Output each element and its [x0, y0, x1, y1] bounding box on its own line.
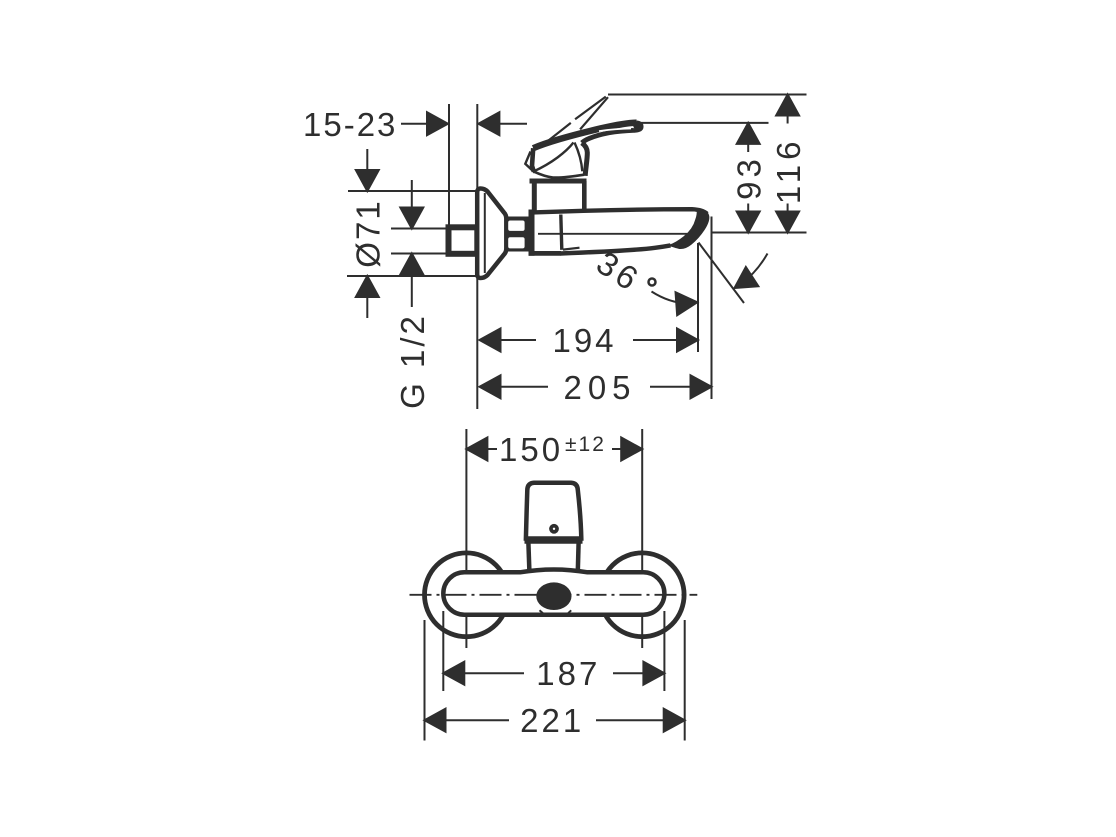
spout center line	[538, 233, 692, 235]
connector port 2	[508, 237, 524, 248]
O71 dim top arrow	[356, 149, 379, 191]
escutcheon rosette (side)	[477, 189, 506, 279]
bottom reference line (spout outlet)	[711, 232, 807, 234]
lever waist curve	[534, 143, 574, 172]
escutcheon inner edge line	[484, 193, 486, 273]
dim 150 extension line right	[641, 429, 643, 648]
O71 top reference line	[348, 190, 477, 192]
svg-text:Ø71: Ø71	[350, 199, 387, 267]
dim 187 extension line left	[442, 611, 444, 691]
dim 221 extension line right	[684, 620, 686, 741]
body/spout top edge	[529, 209, 707, 214]
svg-text:221: 221	[520, 702, 584, 739]
lever loop underside band	[582, 130, 634, 142]
svg-text:194: 194	[552, 322, 616, 359]
svg-text:150: 150	[499, 431, 563, 468]
lever crease	[575, 143, 583, 172]
valve body and spout (side) white fill	[532, 209, 698, 255]
left wall flange circle	[425, 553, 509, 637]
wall face extension line B upper	[476, 104, 478, 189]
lever neck right edge	[582, 143, 588, 176]
G1/2 dim top arrow	[400, 180, 423, 229]
G1/2 bottom reference line	[391, 253, 448, 255]
body left edge	[529, 210, 535, 256]
G1/2 dim bottom arrow	[400, 254, 423, 308]
aerator crescent	[670, 209, 709, 248]
93 reference line (lever top)	[639, 122, 769, 124]
body spout divider	[561, 215, 562, 250]
dim 194	[480, 329, 699, 352]
svg-text:15-23: 15-23	[303, 106, 397, 143]
degree symbol	[649, 279, 656, 286]
dim 150	[466, 438, 642, 461]
wall face extension line B lower	[476, 276, 478, 409]
36 degree arc with arrow	[652, 291, 699, 315]
connector port 1	[508, 221, 524, 231]
svg-text:116: 116	[770, 136, 807, 204]
handle dot	[549, 524, 559, 534]
connector block with two ports	[505, 217, 530, 252]
ghost line of raised lever (upper, two segments)	[547, 97, 606, 142]
lever top edge	[533, 123, 636, 148]
dim 15-23 arrow left	[478, 112, 527, 135]
wall inner extension line A	[448, 104, 450, 226]
dim 221	[425, 709, 685, 732]
svg-text:187: 187	[536, 655, 600, 692]
lever bottom edge	[534, 172, 584, 178]
lever left edge	[532, 148, 534, 171]
body bottom edge	[529, 251, 561, 256]
lever tip end	[634, 123, 642, 131]
svg-text:G 1/2: G 1/2	[394, 313, 431, 409]
spout cone hint right	[565, 610, 571, 616]
spout underside nick	[563, 248, 580, 250]
dim 93	[737, 123, 760, 233]
36 degree surface line	[699, 243, 745, 304]
O71 bottom reference line	[347, 275, 477, 277]
dim 15-23 arrow right	[401, 112, 448, 135]
lever slit (white)	[599, 129, 631, 132]
dim 205	[480, 375, 712, 398]
svg-text:93: 93	[731, 155, 768, 200]
handle dot center	[553, 528, 555, 530]
G1/2 top reference line	[391, 228, 448, 230]
horizontal centerline	[410, 594, 698, 596]
dim 221 extension line left	[424, 620, 426, 741]
lever socket	[530, 181, 587, 212]
lever back tip	[525, 152, 534, 173]
spout tip extension line (194)	[697, 243, 699, 352]
36 degree leader arrow (from upper right)	[728, 254, 767, 298]
ghost line of raised lever (lower)	[580, 97, 608, 129]
dim 150 extension line left	[465, 429, 467, 648]
top reference line (116 level)	[608, 94, 807, 96]
dim 187 extension line right	[663, 611, 665, 691]
handle divider line	[525, 538, 583, 544]
handle neck (front)	[528, 543, 578, 572]
spout underside	[561, 245, 671, 253]
body pill (front)	[443, 569, 664, 614]
O71 dim bottom arrow	[356, 276, 379, 318]
dim 116	[776, 95, 799, 233]
svg-text:205: 205	[563, 369, 636, 406]
svg-text:±12: ±12	[565, 433, 606, 456]
dim 187	[443, 662, 664, 685]
lever tip blob	[633, 121, 641, 129]
pipe stub square	[449, 227, 478, 254]
spout cone hint left	[540, 610, 547, 616]
spout tip extension line (205)	[711, 217, 713, 400]
handle head (front)	[526, 483, 581, 539]
spout outlet ellipse	[536, 582, 571, 610]
lever handle white fill	[532, 123, 641, 178]
right wall flange circle	[600, 553, 684, 637]
